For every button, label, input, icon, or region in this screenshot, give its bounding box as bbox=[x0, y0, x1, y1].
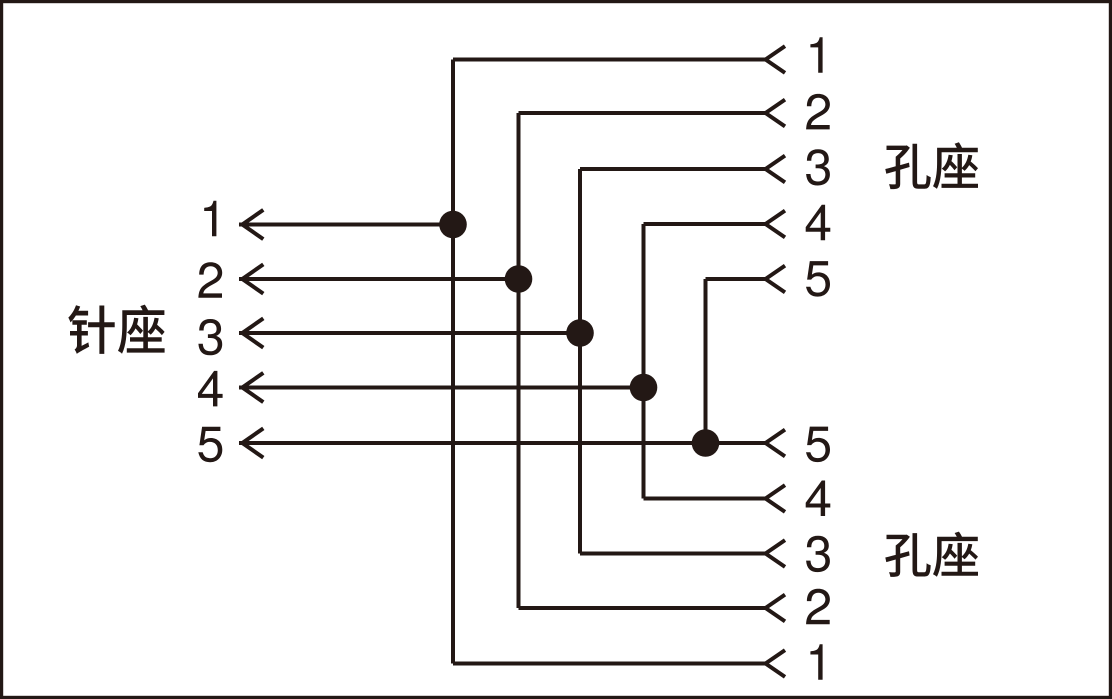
top 孔座 pin 4 socket contact symbol bbox=[766, 211, 786, 238]
wire: net N1 horizontal to bottom 孔座 pin 1 bbox=[453, 662, 766, 666]
wire: net N4 vertical bus segment bbox=[642, 224, 646, 499]
针座 pin 4 number label bbox=[198, 371, 223, 407]
bottom 孔座 pin 5 socket contact symbol bbox=[766, 430, 786, 457]
bottom 孔座 pin 1 number label bbox=[810, 644, 822, 680]
wire: 针座 pin 4 horizontal lead bbox=[239, 386, 644, 390]
top 孔座 pin 5 socket contact symbol bbox=[766, 266, 786, 293]
top 孔座 pin 4 number label bbox=[806, 205, 831, 241]
针座 pin 3 number label bbox=[198, 319, 222, 355]
bottom 孔座 pin 2 number label bbox=[806, 589, 830, 625]
wire: 针座 pin 1 horizontal lead bbox=[239, 223, 453, 227]
top 孔座 pin 2 socket contact symbol bbox=[766, 100, 786, 127]
node N2: net joining 针座 pin 2 with both 孔座 pins 2 bbox=[198, 94, 830, 624]
top 孔座 pin 3 number label bbox=[806, 149, 830, 185]
junction dot node N4 bbox=[630, 374, 658, 402]
wire: net N4 horizontal to bottom 孔座 pin 4 bbox=[644, 497, 766, 501]
connector name label 孔座 (socket, top right) bbox=[885, 142, 978, 189]
针座 pin 5 number label bbox=[198, 427, 222, 463]
junction dot node N2 bbox=[505, 265, 533, 293]
bottom 孔座 pin 3 number label bbox=[806, 536, 830, 572]
connector name label 针座 (pin header, left) bbox=[68, 305, 164, 354]
wire: net N3 horizontal to top 孔座 pin 3 bbox=[580, 167, 766, 171]
bottom 孔座 pin 2 socket contact symbol bbox=[766, 595, 786, 622]
wire: net N5 vertical bus segment bbox=[704, 279, 708, 443]
node N5: net joining 针座 pin 5 with both 孔座 pins 5 bbox=[198, 261, 830, 462]
wire: net N2 horizontal to top 孔座 pin 2 bbox=[519, 111, 766, 115]
针座 pin 2 arrowhead (points left) bbox=[242, 264, 263, 293]
bottom 孔座 pin 4 number label bbox=[806, 481, 831, 517]
针座 pin 1 number label bbox=[204, 201, 216, 237]
针座 pin 4 arrowhead (points left) bbox=[242, 373, 263, 402]
connector name label 孔座 (socket, bottom right) bbox=[885, 532, 978, 577]
bottom 孔座 pin 5 number label bbox=[806, 427, 830, 463]
wire: 针座 pin 3 horizontal lead bbox=[239, 331, 580, 335]
top 孔座 pin 3 socket contact symbol bbox=[766, 156, 786, 183]
top 孔座 pin 5 number label bbox=[806, 261, 830, 297]
针座 pin 1 arrowhead (points left) bbox=[242, 210, 263, 239]
针座 pin 2 number label bbox=[198, 262, 222, 298]
wire: 针座 pin 2 horizontal lead bbox=[239, 277, 519, 281]
node N4: net joining 针座 pin 4 with both 孔座 pins 4 bbox=[198, 205, 830, 516]
wire: 针座 pin 5 horizontal lead bbox=[239, 441, 766, 445]
wire: net N1 horizontal to top 孔座 pin 1 bbox=[453, 58, 766, 62]
针座 pin 3 arrowhead (points left) bbox=[242, 318, 263, 347]
top 孔座 pin 2 number label bbox=[806, 94, 830, 129]
bottom 孔座 pin 1 socket contact symbol bbox=[766, 650, 786, 677]
wire: net N2 horizontal to bottom 孔座 pin 2 bbox=[519, 606, 766, 610]
wire: net N4 horizontal to top 孔座 pin 4 bbox=[644, 222, 766, 226]
node N3: net joining 针座 pin 3 with both 孔座 pins 3 bbox=[198, 149, 830, 572]
针座 pin 5 arrowhead (points left) bbox=[242, 428, 263, 457]
junction dot node N1 bbox=[439, 211, 467, 239]
wire: net N3 horizontal to bottom 孔座 pin 3 bbox=[580, 552, 766, 556]
top 孔座 pin 1 socket contact symbol bbox=[766, 46, 786, 73]
bottom 孔座 pin 4 socket contact symbol bbox=[766, 485, 786, 512]
top 孔座 pin 1 number label bbox=[810, 37, 822, 72]
bottom 孔座 pin 3 socket contact symbol bbox=[766, 540, 786, 567]
wire: net N5 horizontal to top 孔座 pin 5 bbox=[706, 277, 766, 281]
wire: net N2 vertical bus segment bbox=[517, 113, 521, 608]
junction dot node N3 bbox=[566, 319, 594, 347]
wire: net N3 vertical bus segment bbox=[578, 169, 582, 554]
wire: net N1 vertical bus segment bbox=[451, 60, 455, 664]
junction dot node N5 bbox=[692, 429, 720, 457]
node N1: net joining 针座 pin 1 with both 孔座 pins 1 bbox=[204, 37, 822, 680]
